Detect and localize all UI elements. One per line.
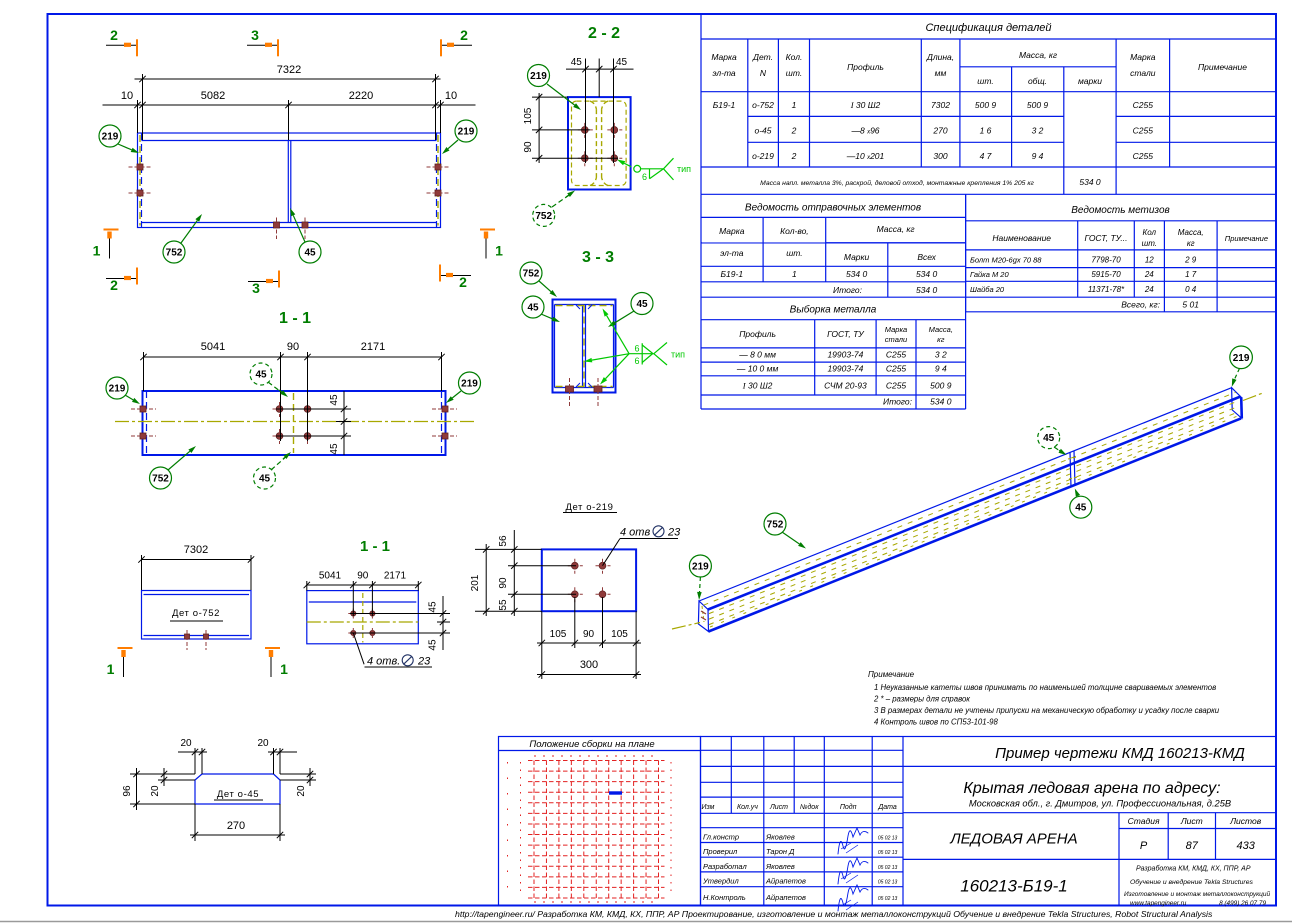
svg-text:270: 270 <box>932 126 947 136</box>
svg-text:Лист: Лист <box>769 804 788 811</box>
svg-text:55: 55 <box>498 599 509 611</box>
svg-text:1 - 1: 1 - 1 <box>279 310 311 327</box>
svg-text:Разработка КМ, КМД, КХ, ППР, А: Разработка КМ, КМД, КХ, ППР, АР <box>1136 865 1251 873</box>
svg-text:2 * – размеры для справок: 2 * – размеры для справок <box>873 695 970 704</box>
svg-text:ГОСТ, ТУ: ГОСТ, ТУ <box>827 329 865 339</box>
svg-text:Марка: Марка <box>1130 52 1156 62</box>
svg-text:7302: 7302 <box>931 100 950 110</box>
svg-text:Масса, кг: Масса, кг <box>877 224 915 234</box>
svg-text:500 9: 500 9 <box>975 100 997 110</box>
svg-text:Изготовление и монтаж металлок: Изготовление и монтаж металлоконструкций <box>1124 890 1270 898</box>
svg-text:о-219: о-219 <box>752 151 774 161</box>
svg-text:1 - 1: 1 - 1 <box>360 538 390 555</box>
svg-text:24: 24 <box>1144 285 1154 294</box>
svg-text:45: 45 <box>1075 503 1087 514</box>
svg-text:10: 10 <box>445 90 457 102</box>
svg-text:752: 752 <box>166 248 183 259</box>
svg-text:Шайба 20: Шайба 20 <box>970 285 1005 294</box>
svg-text:1 7: 1 7 <box>1185 270 1197 279</box>
svg-text:1 Неуказанные катеты швов при: 1 Неуказанные катеты швов принимать по н… <box>874 683 1216 692</box>
svg-text:Профиль: Профиль <box>739 329 776 339</box>
svg-text:20: 20 <box>150 785 161 797</box>
svg-text:90: 90 <box>498 577 509 589</box>
svg-text:Р: Р <box>1140 840 1148 852</box>
svg-text:С255: С255 <box>886 350 907 360</box>
svg-text:Московская обл., г. Дмитров, у: Московская обл., г. Дмитров, ул. Професс… <box>969 799 1231 809</box>
svg-text:534 0: 534 0 <box>916 285 938 295</box>
svg-text:Примечание: Примечание <box>1198 62 1247 72</box>
svg-text:Дет о-219: Дет о-219 <box>565 502 613 513</box>
svg-text:Ведомость метизов: Ведомость метизов <box>1071 205 1170 216</box>
svg-text:Лист: Лист <box>1180 816 1203 826</box>
svg-text:Разработал: Разработал <box>703 862 747 871</box>
svg-text:45: 45 <box>259 474 271 485</box>
svg-text:5 01: 5 01 <box>1182 300 1199 310</box>
svg-text:3 2: 3 2 <box>935 350 947 360</box>
svg-text:2 9: 2 9 <box>1184 256 1197 265</box>
svg-text:Кол.уч: Кол.уч <box>737 804 758 811</box>
svg-text:кг: кг <box>1187 239 1195 248</box>
svg-text:2: 2 <box>791 126 797 136</box>
svg-text:Профиль: Профиль <box>847 62 884 72</box>
svg-text:90: 90 <box>583 629 595 640</box>
svg-text:752: 752 <box>535 211 552 222</box>
svg-text:2171: 2171 <box>361 341 385 353</box>
svg-text:219: 219 <box>109 384 126 395</box>
svg-text:6: 6 <box>634 356 639 366</box>
svg-text:90: 90 <box>357 571 369 582</box>
svg-text:Масса, кг: Масса, кг <box>1019 50 1057 60</box>
svg-text:300: 300 <box>933 151 947 161</box>
svg-text:12: 12 <box>1145 256 1154 265</box>
svg-text:Марка: Марка <box>719 226 745 236</box>
svg-text:20: 20 <box>180 738 192 749</box>
svg-text:Кол: Кол <box>1143 228 1157 237</box>
svg-text:45: 45 <box>304 248 316 259</box>
svg-text:Примечание: Примечание <box>1225 234 1268 243</box>
svg-text:752: 752 <box>767 520 784 531</box>
svg-text:219: 219 <box>461 379 478 390</box>
svg-text:534 0: 534 0 <box>930 397 952 407</box>
svg-text:219: 219 <box>1233 353 1250 364</box>
svg-text:7322: 7322 <box>277 64 301 76</box>
svg-text:5082: 5082 <box>201 90 225 102</box>
svg-text:I 30 Ш2: I 30 Ш2 <box>742 381 773 391</box>
svg-text:С255: С255 <box>1133 126 1154 136</box>
svg-text:96: 96 <box>122 785 133 797</box>
svg-text:—8 x96: —8 x96 <box>850 126 879 136</box>
svg-text:1: 1 <box>792 269 797 279</box>
svg-text:Всего, кг:: Всего, кг: <box>1121 300 1160 310</box>
svg-text:6: 6 <box>642 172 647 182</box>
svg-text:стали: стали <box>885 335 908 344</box>
svg-text:тип: тип <box>671 350 685 360</box>
svg-text:3: 3 <box>251 27 259 43</box>
svg-text:45: 45 <box>428 601 439 613</box>
svg-text:24: 24 <box>1144 270 1154 279</box>
svg-text:марки: марки <box>1078 76 1102 86</box>
svg-text:Стадия: Стадия <box>1128 816 1160 826</box>
svg-text:Марка: Марка <box>885 325 907 334</box>
svg-text:Масса,: Масса, <box>1178 228 1204 237</box>
svg-text:Масса,: Масса, <box>929 325 953 334</box>
svg-text:0 4: 0 4 <box>1185 285 1197 294</box>
svg-text:9 4: 9 4 <box>935 364 947 374</box>
svg-text:4 отв.: 4 отв. <box>367 656 400 668</box>
svg-text:о-45: о-45 <box>754 126 771 136</box>
svg-text:Гайка М 20: Гайка М 20 <box>970 270 1009 279</box>
svg-text:Н.Контроль: Н.Контроль <box>703 893 746 902</box>
svg-text:http://tapengineer.ru/ Разраб: http://tapengineer.ru/ Разработка КМ, КМ… <box>455 909 1213 919</box>
svg-text:С255: С255 <box>1133 100 1154 110</box>
svg-text:105: 105 <box>523 107 534 124</box>
svg-text:105: 105 <box>611 629 628 640</box>
svg-text:1: 1 <box>107 661 115 677</box>
svg-text:— 10 0 мм: — 10 0 мм <box>736 364 779 374</box>
svg-text:Б19-1: Б19-1 <box>713 100 736 110</box>
svg-text:05 02 13: 05 02 13 <box>878 880 898 886</box>
svg-text:219: 219 <box>530 71 547 82</box>
svg-text:шт.: шт. <box>786 68 802 78</box>
svg-text:Спецификация деталей: Спецификация деталей <box>925 22 1051 34</box>
svg-text:10: 10 <box>121 90 133 102</box>
svg-text:Тарон Д: Тарон Д <box>766 847 795 856</box>
svg-text:Дет о-45: Дет о-45 <box>217 789 259 800</box>
svg-text:4 отв: 4 отв <box>620 527 650 539</box>
svg-text:Положение сборки на плане: Положение сборки на плане <box>529 739 654 750</box>
svg-text:Обучение и внедрение Tekla St: Обучение и внедрение Tekla Structures <box>1130 878 1253 886</box>
svg-text:2: 2 <box>110 27 118 43</box>
svg-text:2: 2 <box>110 277 118 293</box>
svg-text:45: 45 <box>329 443 340 455</box>
svg-text:Листов: Листов <box>1229 816 1262 826</box>
svg-text:Ведомость отправочных элементо: Ведомость отправочных элементов <box>745 203 921 214</box>
svg-text:8 (499) 26 07 79: 8 (499) 26 07 79 <box>1219 900 1266 907</box>
svg-text:05 02 13: 05 02 13 <box>878 865 898 871</box>
svg-text:Длина,: Длина, <box>926 52 954 62</box>
svg-text:общ.: общ. <box>1028 76 1047 86</box>
svg-text:3 В размерах детали не учтены: 3 В размерах детали не учтены припуски н… <box>874 706 1220 715</box>
svg-text:Айрапетов: Айрапетов <box>765 877 806 886</box>
svg-text:Примечание: Примечание <box>868 670 915 679</box>
svg-text:05 02 13: 05 02 13 <box>878 896 898 902</box>
svg-text:№док: №док <box>800 803 819 811</box>
svg-text:Гл.констр: Гл.констр <box>703 833 739 842</box>
svg-text:Наименование: Наименование <box>992 233 1051 243</box>
svg-text:752: 752 <box>523 269 540 280</box>
svg-text:19903-74: 19903-74 <box>827 350 863 360</box>
svg-text:05 02 13: 05 02 13 <box>878 850 898 856</box>
svg-text:Б19-1: Б19-1 <box>721 269 744 279</box>
svg-text:7798-70: 7798-70 <box>1091 256 1121 265</box>
svg-text:С255: С255 <box>1133 151 1154 161</box>
svg-text:9 4: 9 4 <box>1032 151 1044 161</box>
svg-text:87: 87 <box>1186 840 1199 852</box>
svg-text:1 6: 1 6 <box>980 126 992 136</box>
svg-text:www.tapengineer.ru: www.tapengineer.ru <box>1130 900 1187 907</box>
svg-text:5041: 5041 <box>201 341 225 353</box>
svg-text:90: 90 <box>523 141 534 153</box>
svg-text:23: 23 <box>667 527 681 539</box>
svg-text:3 2: 3 2 <box>1032 126 1044 136</box>
svg-text:Проверил: Проверил <box>703 847 738 856</box>
svg-text:45: 45 <box>255 370 267 381</box>
svg-text:Пример чертежи КМД 160213-КМД: Пример чертежи КМД 160213-КМД <box>995 745 1245 762</box>
svg-text:534 0: 534 0 <box>846 269 868 279</box>
svg-text:2 - 2: 2 - 2 <box>588 25 620 42</box>
svg-text:534 0: 534 0 <box>916 269 938 279</box>
svg-text:Выборка металла: Выборка металла <box>790 304 877 316</box>
svg-text:—10 x201: —10 x201 <box>846 151 885 161</box>
svg-text:Крытая ледовая арена по адресу: Крытая ледовая арена по адресу: <box>963 780 1220 797</box>
svg-text:N: N <box>760 68 767 78</box>
svg-text:1: 1 <box>495 243 503 259</box>
svg-text:Изм: Изм <box>702 804 715 811</box>
svg-text:433: 433 <box>1237 840 1256 852</box>
svg-text:Кол-во,: Кол-во, <box>780 226 809 236</box>
svg-text:45: 45 <box>636 299 648 310</box>
svg-text:Болт М20-6gх 70 88: Болт М20-6gх 70 88 <box>970 256 1042 265</box>
svg-text:1: 1 <box>280 661 288 677</box>
svg-text:5915-70: 5915-70 <box>1091 270 1121 279</box>
svg-text:45: 45 <box>616 57 628 68</box>
svg-text:Итого:: Итого: <box>833 285 863 295</box>
svg-text:Дет о-752: Дет о-752 <box>172 608 220 619</box>
svg-text:тип: тип <box>677 164 691 174</box>
svg-text:2171: 2171 <box>384 571 407 582</box>
svg-text:201: 201 <box>470 574 481 591</box>
svg-text:45: 45 <box>329 394 340 406</box>
svg-text:20: 20 <box>257 738 269 749</box>
svg-text:23: 23 <box>417 656 431 668</box>
svg-text:1: 1 <box>93 243 101 259</box>
svg-text:Всех: Всех <box>917 252 936 262</box>
svg-text:стали: стали <box>1130 68 1156 78</box>
svg-text:11371-78*: 11371-78* <box>1088 285 1125 294</box>
svg-text:20: 20 <box>296 785 307 797</box>
svg-text:160213-Б19-1: 160213-Б19-1 <box>960 877 1067 896</box>
svg-text:эл-та: эл-та <box>720 248 744 258</box>
svg-text:Марки: Марки <box>844 252 870 262</box>
svg-text:5041: 5041 <box>319 571 342 582</box>
svg-text:Дет.: Дет. <box>752 52 773 62</box>
svg-text:4 7: 4 7 <box>980 151 992 161</box>
svg-text:Утвердил: Утвердил <box>702 877 739 886</box>
svg-text:270: 270 <box>227 820 245 832</box>
svg-text:219: 219 <box>692 562 709 573</box>
svg-text:300: 300 <box>580 659 598 671</box>
svg-text:Дата: Дата <box>877 804 897 811</box>
svg-text:7302: 7302 <box>184 544 208 556</box>
svg-text:534 0: 534 0 <box>1079 177 1101 187</box>
svg-text:45: 45 <box>1043 433 1055 444</box>
svg-text:шт.: шт. <box>977 76 993 86</box>
svg-text:шт.: шт. <box>1142 239 1157 248</box>
svg-text:19903-74: 19903-74 <box>827 364 863 374</box>
svg-text:2220: 2220 <box>349 90 373 102</box>
svg-text:С255: С255 <box>886 381 907 391</box>
svg-text:05 02 13: 05 02 13 <box>878 836 898 842</box>
svg-text:45: 45 <box>571 57 583 68</box>
svg-text:шт.: шт. <box>786 248 802 258</box>
svg-text:219: 219 <box>458 127 475 138</box>
svg-text:Марка: Марка <box>711 52 737 62</box>
svg-text:Яковлев: Яковлев <box>765 862 795 871</box>
svg-text:3: 3 <box>252 280 260 296</box>
svg-text:о-752: о-752 <box>752 100 774 110</box>
svg-text:2: 2 <box>791 151 797 161</box>
svg-text:ГОСТ, ТУ...: ГОСТ, ТУ... <box>1084 233 1127 243</box>
svg-text:2: 2 <box>459 274 467 290</box>
svg-text:Яковлев: Яковлев <box>765 833 795 842</box>
svg-text:Подп: Подп <box>840 803 857 811</box>
svg-text:СЧМ 20-93: СЧМ 20-93 <box>824 381 867 391</box>
svg-text:Итого:: Итого: <box>883 397 913 407</box>
svg-text:эл-та: эл-та <box>712 68 736 78</box>
svg-text:Кол.: Кол. <box>786 52 803 62</box>
svg-text:6: 6 <box>634 344 639 354</box>
svg-text:500 9: 500 9 <box>930 381 952 391</box>
svg-text:— 8 0 мм: — 8 0 мм <box>738 350 776 360</box>
svg-text:Айрапетов: Айрапетов <box>765 893 806 902</box>
svg-text:752: 752 <box>152 474 169 485</box>
svg-text:90: 90 <box>287 341 299 353</box>
svg-text:Масса напл. металла 3%, раскро: Масса напл. металла 3%, раскрой, деловой… <box>760 179 1034 187</box>
svg-text:45: 45 <box>428 639 439 651</box>
svg-text:45: 45 <box>527 303 539 314</box>
svg-text:2: 2 <box>460 27 468 43</box>
svg-text:500 9: 500 9 <box>1027 100 1049 110</box>
svg-text:I 30 Ш2: I 30 Ш2 <box>850 100 881 110</box>
svg-text:105: 105 <box>550 629 567 640</box>
svg-text:219: 219 <box>102 132 119 143</box>
svg-text:56: 56 <box>498 535 509 547</box>
svg-text:4 Контроль швов по СП53-101-9: 4 Контроль швов по СП53-101-98 <box>874 718 999 727</box>
svg-text:1: 1 <box>792 100 797 110</box>
svg-text:ЛЕДОВАЯ АРЕНА: ЛЕДОВАЯ АРЕНА <box>949 831 1077 848</box>
svg-text:3 - 3: 3 - 3 <box>582 249 614 266</box>
svg-text:С255: С255 <box>886 364 907 374</box>
svg-text:кг: кг <box>937 335 945 344</box>
svg-text:мм: мм <box>935 68 947 78</box>
